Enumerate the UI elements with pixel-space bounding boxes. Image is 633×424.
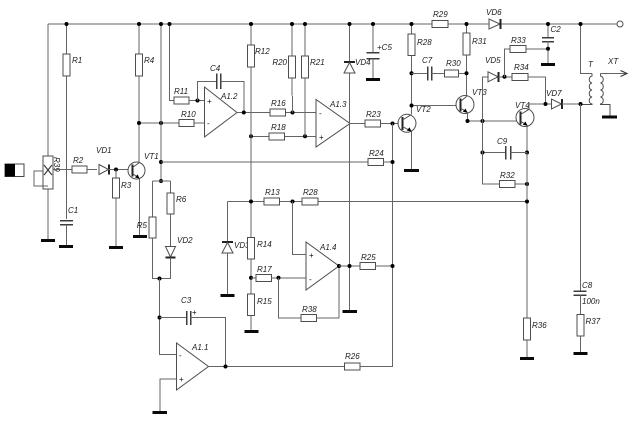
diode VD2 <box>160 236 194 279</box>
svg-text:-: - <box>179 351 182 360</box>
transistor VT1 <box>128 152 159 179</box>
node A1.4 plus drop <box>291 200 295 204</box>
wire to C3 node <box>160 279 177 355</box>
ground R37 <box>574 352 588 355</box>
node R24/bus <box>391 160 395 164</box>
resistor R33 <box>505 36 549 77</box>
wire VT1 row to R24 <box>161 161 368 163</box>
wire output node down to C8 <box>580 104 582 291</box>
node R4/R10 <box>137 121 141 125</box>
wire bias vertical <box>160 24 162 181</box>
connector input <box>5 164 24 177</box>
svg-text:R25: R25 <box>361 253 376 262</box>
node ground branch <box>348 264 352 268</box>
svg-text:R36: R36 <box>532 321 547 330</box>
wire R18 row <box>252 135 317 137</box>
svg-text:VT4: VT4 <box>515 101 530 110</box>
resistor R38 feedback <box>279 266 340 322</box>
resistor R5 <box>137 181 160 279</box>
svg-text:R3: R3 <box>121 181 132 190</box>
node R12 line / R13 row <box>249 200 253 204</box>
wire emitter bus down <box>526 153 528 319</box>
svg-text:+C5: +C5 <box>377 43 392 52</box>
ground R3 <box>109 246 123 249</box>
resistor R31 <box>463 24 487 96</box>
resistor R3 <box>113 170 132 247</box>
wire A1.2 out row <box>237 112 316 114</box>
wire R39 tap <box>34 171 48 186</box>
wire VT2 emitter <box>411 132 413 170</box>
svg-text:R13: R13 <box>265 188 280 197</box>
resistor R32 <box>500 171 528 188</box>
svg-text:R28: R28 <box>417 38 432 47</box>
ground R15 <box>245 330 259 333</box>
svg-text:R15: R15 <box>257 297 272 306</box>
resistor R4 <box>136 24 155 162</box>
node C9 left <box>481 151 485 155</box>
ground A1.1 <box>153 411 168 414</box>
node C4 loop left <box>196 99 200 103</box>
node VD7 output <box>579 102 583 106</box>
transistor VT3 <box>456 88 487 114</box>
resistor R23 <box>365 110 398 127</box>
ground VT2 <box>404 169 419 172</box>
capacitor C3 <box>160 296 226 367</box>
svg-text:R31: R31 <box>472 37 487 46</box>
svg-text:R37: R37 <box>586 317 601 326</box>
transformer T secondary winding <box>601 74 611 116</box>
resistor R25 <box>360 253 393 270</box>
svg-text:+: + <box>309 251 314 260</box>
resistor R21 <box>302 24 325 136</box>
resistor R6 <box>167 181 187 247</box>
svg-text:A1.1: A1.1 <box>191 343 208 352</box>
capacitor C5 <box>367 24 393 78</box>
wire mid vertical bus <box>392 124 394 367</box>
wire R12 line down <box>250 136 252 237</box>
svg-text:-: - <box>309 275 312 284</box>
node A1.4 out <box>337 264 341 268</box>
node R34 bottom <box>544 102 548 106</box>
svg-text:R21: R21 <box>310 58 325 67</box>
svg-text:R1: R1 <box>72 56 82 65</box>
resistor R37 <box>577 315 601 353</box>
svg-text:C8: C8 <box>582 281 593 290</box>
svg-text:R5: R5 <box>137 221 148 230</box>
wire R5/R6 tee <box>153 180 171 182</box>
svg-text:R12: R12 <box>255 47 270 56</box>
wire A1.1 output row <box>209 366 345 368</box>
resistor R15 <box>248 294 273 330</box>
svg-text:R30: R30 <box>446 59 461 68</box>
svg-text:VD2: VD2 <box>177 236 193 245</box>
wire VT4 collector <box>529 104 552 109</box>
transistor VT2 <box>398 105 431 132</box>
node VT2 collector / VT3 base <box>410 104 414 108</box>
resistor R28 (vertical top) <box>408 24 432 115</box>
svg-text:VT3: VT3 <box>472 88 487 97</box>
svg-text:+: + <box>179 375 184 384</box>
diode VD1 <box>96 146 128 175</box>
svg-text:VD7: VD7 <box>546 89 562 98</box>
resistor R24 <box>368 149 393 166</box>
wire top supply rail <box>48 23 621 25</box>
node VD1/R3/VT1 base <box>114 168 118 172</box>
ground R39 <box>41 239 55 242</box>
wire VD4 vertical to ground <box>349 73 351 310</box>
node R25/bus <box>391 264 395 268</box>
resistor R16 <box>270 99 286 116</box>
svg-text:-: - <box>207 119 210 128</box>
resistor R13 <box>264 188 280 205</box>
ground VT1 <box>133 235 147 238</box>
svg-text:R4: R4 <box>144 56 155 65</box>
diode VD4 <box>344 24 371 73</box>
svg-text:VD5: VD5 <box>485 56 501 65</box>
capacitor C2 <box>542 24 561 63</box>
svg-text:A1.2: A1.2 <box>220 92 238 101</box>
node R30/R31 <box>465 71 469 75</box>
wire sensor row <box>53 169 72 171</box>
node C2/R33 <box>546 47 550 51</box>
wire R39 bottom lead <box>47 189 49 239</box>
wire VT3 emitter to row <box>467 113 469 121</box>
svg-text:R38: R38 <box>302 305 317 314</box>
resistor R14 <box>248 238 273 295</box>
resistor R39 (sensor with X) <box>43 156 61 189</box>
svg-text:R26: R26 <box>345 352 360 361</box>
node C7 row left <box>410 71 414 75</box>
op-amp A1.1 <box>177 343 209 390</box>
resistor R28 (horizontal) <box>302 188 318 205</box>
svg-text:VT2: VT2 <box>416 105 431 114</box>
op-amp A1.3 <box>316 100 350 148</box>
svg-text:C7: C7 <box>422 56 433 65</box>
ground R36 <box>520 357 534 360</box>
wire VT4 emitter <box>526 126 529 153</box>
svg-text:C3: C3 <box>181 296 192 305</box>
ground VD3 <box>221 294 235 297</box>
svg-text:R23: R23 <box>366 110 381 119</box>
transformer T primary winding <box>581 74 593 105</box>
svg-text:R32: R32 <box>500 171 515 180</box>
resistor R29 <box>432 10 448 28</box>
node R36 top row <box>525 200 529 204</box>
svg-text:VD1: VD1 <box>96 146 112 155</box>
svg-text:R33: R33 <box>511 36 526 45</box>
wire XT output arrow <box>601 57 628 77</box>
resistor R11 <box>174 87 205 104</box>
wire R11 from rail <box>170 24 175 101</box>
wire VT3 base row <box>412 105 457 107</box>
node rail R31 <box>465 22 469 26</box>
node A1.2 out <box>242 111 246 115</box>
svg-text:VD6: VD6 <box>486 8 502 17</box>
wire VT1 emitter <box>139 179 141 236</box>
node bias/R10 <box>159 121 163 125</box>
diode VD7 <box>546 89 581 109</box>
terminal top-right <box>617 21 623 27</box>
node R33/VD5/R34 <box>503 75 507 79</box>
op-amp A1.2 <box>205 87 239 137</box>
ground C1 <box>59 245 73 248</box>
wire VD5 drop to R32 <box>483 121 500 184</box>
wire R10 row <box>139 122 179 124</box>
node VT3 emitter <box>466 119 470 123</box>
diode VD6 <box>486 8 502 29</box>
wire A1.4 out row <box>339 265 360 267</box>
svg-text:100n: 100n <box>582 297 600 306</box>
capacitor C9 <box>483 137 528 160</box>
wire A1.3 out <box>350 123 365 125</box>
node R17/R38 <box>277 276 281 280</box>
svg-text:+: + <box>207 97 212 106</box>
capacitor C4 feedback <box>198 64 244 113</box>
node VD5 drop <box>481 119 485 123</box>
rail junction dots <box>65 22 69 26</box>
svg-text:+: + <box>192 308 197 317</box>
resistor R26 <box>345 266 393 370</box>
svg-text:-: - <box>319 109 322 118</box>
node A1.1 out <box>224 365 228 369</box>
svg-text:R18: R18 <box>271 123 286 132</box>
node C3 left <box>158 316 162 320</box>
svg-text:R34: R34 <box>514 63 529 72</box>
diode VD3 <box>222 202 250 295</box>
svg-text:R16: R16 <box>271 99 286 108</box>
svg-text:R24: R24 <box>369 149 384 158</box>
resistor R2 <box>72 156 97 173</box>
svg-text:R10: R10 <box>181 110 196 119</box>
svg-text:C9: C9 <box>497 137 508 146</box>
resistor R20 <box>272 24 295 113</box>
resistor R18 <box>269 123 286 140</box>
svg-text:R14: R14 <box>257 240 272 249</box>
node C9 right <box>525 151 529 155</box>
node R23/VT2 <box>391 122 395 126</box>
wire transformer primary top <box>581 24 593 74</box>
svg-text:R6: R6 <box>176 195 187 204</box>
ground C2 <box>541 63 555 66</box>
node R21 bottom <box>303 134 307 138</box>
transistor VT4 <box>515 101 534 127</box>
op-amp A1.4 <box>306 242 339 290</box>
wire left drop to R39 <box>47 24 49 156</box>
svg-text:XT: XT <box>607 57 619 66</box>
resistor R30 <box>445 59 467 77</box>
resistor R34 <box>512 63 546 104</box>
svg-text:VD4: VD4 <box>355 58 371 67</box>
wire VT3/VT4 row <box>468 120 517 122</box>
wire A1.1 plus to ground <box>160 379 177 411</box>
resistor R36 <box>524 318 548 357</box>
capacitor C1 <box>60 206 78 245</box>
svg-text:C2: C2 <box>551 25 562 34</box>
svg-text:R17: R17 <box>257 265 272 274</box>
svg-text:A1.4: A1.4 <box>319 243 337 252</box>
node bias row split <box>159 160 163 164</box>
svg-text:R2: R2 <box>73 156 84 165</box>
ground C5 <box>366 78 380 81</box>
capacitor C7 <box>412 56 445 81</box>
ground T secondary <box>602 116 617 119</box>
svg-text:A1.3: A1.3 <box>329 100 347 109</box>
node R5/VD2 join <box>158 277 162 281</box>
diode VD5 <box>483 56 513 121</box>
ground mid <box>343 310 358 313</box>
node R20 bottom <box>291 111 295 115</box>
node R12/R18 <box>249 134 253 138</box>
resistor R10 body <box>179 110 205 127</box>
svg-text:R11: R11 <box>174 87 188 96</box>
wire A1.4 plus input <box>293 202 307 255</box>
svg-text:C1: C1 <box>68 206 78 215</box>
svg-text:R20: R20 <box>272 58 287 67</box>
resistor R1 <box>63 24 82 219</box>
node R32 right <box>525 182 529 186</box>
resistor R17 <box>251 265 306 281</box>
svg-text:C4: C4 <box>210 64 221 73</box>
svg-text:R29: R29 <box>433 10 448 19</box>
node R14/R17 <box>249 276 253 280</box>
svg-text:VT1: VT1 <box>144 152 159 161</box>
wire R13 row <box>228 201 528 203</box>
svg-text:+: + <box>319 133 324 142</box>
capacitor C8 <box>574 281 601 315</box>
svg-text:R28: R28 <box>303 188 318 197</box>
resistor R12 <box>248 24 271 136</box>
